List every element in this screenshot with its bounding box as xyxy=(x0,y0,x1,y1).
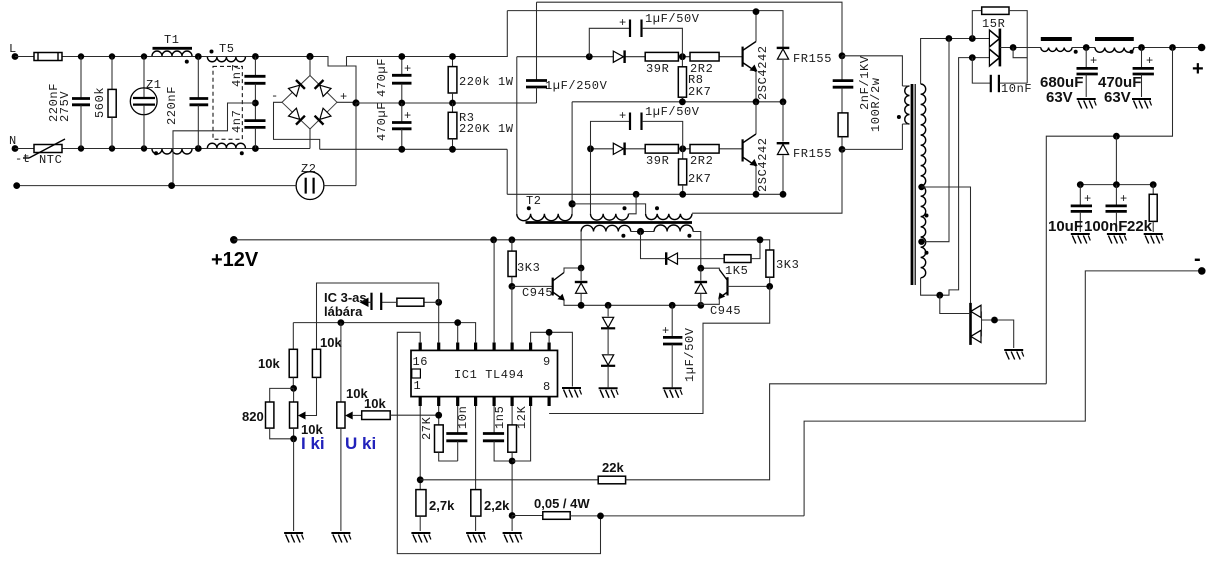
svg-text:FR155: FR155 xyxy=(793,147,832,161)
core T2 xyxy=(526,221,693,224)
svg-text:10k: 10k xyxy=(258,356,280,371)
svg-text:T5: T5 xyxy=(219,42,235,56)
node 4n7 midpoint xyxy=(252,100,259,107)
svg-text:220nF: 220nF xyxy=(165,86,179,125)
ground 2,7k xyxy=(411,533,431,543)
capacitor 220nF 275V xyxy=(80,57,82,99)
wire to pin11 xyxy=(511,286,513,343)
svg-text:275V: 275V xyxy=(58,91,72,122)
transistor Q1 2SC4242 upper xyxy=(741,47,743,67)
svg-text:10k: 10k xyxy=(320,335,342,350)
svg-text:100nF: 100nF xyxy=(1084,218,1127,235)
node T2 mid node xyxy=(569,200,576,207)
resistor 39R lower xyxy=(645,145,678,154)
wire clamp bottom to T2 w3 xyxy=(692,149,842,213)
node pin15 node xyxy=(435,299,442,306)
node collector top xyxy=(753,8,760,15)
node collector node right xyxy=(697,265,704,272)
winding T2 primary 1 xyxy=(517,214,572,221)
diode antiparallel left xyxy=(575,282,588,293)
svg-text:1K5: 1K5 xyxy=(725,264,748,278)
resistor 3K3 right xyxy=(766,250,774,277)
svg-text:-t: -t xyxy=(15,152,31,166)
wire pin14 line xyxy=(293,323,475,343)
svg-text:+: + xyxy=(1146,54,1154,68)
capacitor 470uF lower xyxy=(401,103,403,122)
wire output plus line xyxy=(1134,47,1202,49)
wire T2 mid link xyxy=(572,204,646,214)
ground shunt node xyxy=(503,533,523,543)
wire base drive return to pin8 xyxy=(549,286,770,413)
wire pin7 to node xyxy=(512,406,531,461)
wire earth line xyxy=(17,185,297,187)
svg-text:220K 1W: 220K 1W xyxy=(459,122,514,136)
wire T2 sec left end down xyxy=(580,232,582,269)
wire clamp to primary xyxy=(842,56,902,86)
svg-text:22k: 22k xyxy=(1127,218,1153,235)
node pin1 node xyxy=(417,476,424,483)
svg-text:+: + xyxy=(404,62,412,76)
capacitor feedback C xyxy=(381,301,397,303)
svg-text:2SC4242: 2SC4242 xyxy=(756,45,770,100)
wire right base to 3K3 xyxy=(728,285,770,287)
resistor 22k bleeder xyxy=(1152,185,1154,195)
wire pin16 sense loop xyxy=(397,332,600,553)
node shunt sense node xyxy=(597,513,604,520)
capacitor 1uF/250V xyxy=(536,2,538,80)
wire upper drive row xyxy=(517,56,743,58)
svg-text:T1: T1 xyxy=(164,33,180,47)
svg-text:10nF: 10nF xyxy=(1001,82,1032,96)
svg-text:1µF/50V: 1µF/50V xyxy=(645,12,700,26)
wire diode to 1K5 xyxy=(678,258,725,260)
node T2 sec center tap xyxy=(637,228,644,235)
wire T2 sec center link xyxy=(631,231,654,233)
capacitor 470uF 63V output xyxy=(1141,48,1143,69)
resistor 0,05 / 4W xyxy=(512,515,543,517)
svg-text:3K3: 3K3 xyxy=(776,258,799,272)
wire top outer line xyxy=(537,2,843,56)
node lower anode dot xyxy=(969,54,976,61)
capacitor 10uF xyxy=(1079,185,1081,206)
node plus terminal xyxy=(1198,44,1206,52)
svg-text:I ki: I ki xyxy=(301,434,325,453)
wire pin2 drop xyxy=(438,406,440,425)
svg-text:+: + xyxy=(1192,58,1204,80)
node 3K3 left bottom xyxy=(509,283,516,290)
svg-text:+: + xyxy=(619,109,627,123)
wire T2 sec right end down xyxy=(693,232,701,269)
node junction dots on N line xyxy=(78,145,84,151)
resistor 22k xyxy=(598,476,625,484)
svg-text:2K7: 2K7 xyxy=(688,172,711,186)
node +12V terminal xyxy=(230,236,238,244)
wire bridge minus output xyxy=(274,102,320,149)
diode bridge D lower-left xyxy=(288,108,305,125)
wire 22k to minus sense xyxy=(626,384,1047,480)
svg-text:-: - xyxy=(1194,248,1201,270)
wire D- anode bar xyxy=(981,311,983,336)
node T3 tap dots xyxy=(918,239,924,245)
diode upper row xyxy=(613,50,624,63)
diode bridge D upper-right xyxy=(315,80,332,97)
node L2 cap junction xyxy=(1138,44,1145,51)
node arrow to IC pin3 xyxy=(360,298,369,307)
resistor 100R/2w clamp xyxy=(838,113,848,137)
resistor 2R2 lower xyxy=(690,145,719,154)
resistor R8 2K7 upper xyxy=(681,57,683,67)
svg-text:820: 820 xyxy=(242,409,264,424)
svg-text:470µF: 470µF xyxy=(375,58,389,97)
svg-text:0,05 / 4W: 0,05 / 4W xyxy=(534,496,590,511)
svg-text:1: 1 xyxy=(414,379,422,393)
node lower row dots xyxy=(587,145,594,152)
potentiometer 10k I ki xyxy=(293,388,295,402)
svg-text:U ki: U ki xyxy=(345,434,376,453)
node +12V rail dots xyxy=(490,236,497,243)
diode bias D2 xyxy=(607,328,609,354)
svg-text:16: 16 xyxy=(413,355,429,369)
svg-text:560k: 560k xyxy=(93,87,107,118)
diode FR155 lower xyxy=(782,102,784,142)
diode rectifier D+ dual xyxy=(989,30,999,47)
svg-text:12K: 12K xyxy=(515,405,529,429)
svg-text:+: + xyxy=(1090,54,1098,68)
node 12K bottom xyxy=(509,458,516,465)
potentiometer 10k U ki xyxy=(340,323,342,402)
capacitor 1uF/50V upper xyxy=(589,28,629,56)
resistor 12K xyxy=(511,406,513,425)
transformer T3 core xyxy=(911,84,914,285)
wire T2 center tap to clamp diode xyxy=(641,232,666,259)
svg-text:2SC4242: 2SC4242 xyxy=(756,137,770,192)
svg-text:220k 1W: 220k 1W xyxy=(459,75,514,89)
wire I ki to ground xyxy=(293,439,295,531)
ground I ki xyxy=(284,533,304,543)
node junction dots on L line xyxy=(78,53,84,59)
wire lower collector/emitter column xyxy=(755,102,757,134)
wire T2 w2 right post to rail xyxy=(629,194,637,214)
svg-text:-: - xyxy=(271,89,279,103)
wire L line xyxy=(15,57,356,104)
transistor Q4 C945 right xyxy=(726,277,728,295)
resistor 560k xyxy=(111,57,113,90)
wire L line right part xyxy=(346,57,348,67)
capacitor 4n7 lower xyxy=(254,103,256,120)
wire right emitter xyxy=(701,298,720,304)
svg-text:C945: C945 xyxy=(710,304,741,318)
resistor feedback R xyxy=(424,301,439,303)
wire pin12 to +12V xyxy=(493,240,495,343)
wire sense line xyxy=(1046,48,1172,384)
resistor R3 220K 1W xyxy=(452,103,454,112)
capacitor 220nF (second) xyxy=(197,57,199,99)
node collector node left xyxy=(578,265,585,272)
wire pin14 line left drop xyxy=(292,323,294,350)
wire pin15 riser xyxy=(438,302,440,343)
op-amp U1 IC1 TL494 body xyxy=(411,350,558,396)
wire pins 9 10 to ground xyxy=(531,332,573,386)
resistor 2K7 lower xyxy=(682,149,684,159)
svg-text:+: + xyxy=(404,109,412,123)
wire mid rail riser to T2 xyxy=(571,102,573,204)
wire lower drive row xyxy=(591,148,743,150)
diode bridge D upper-left xyxy=(288,80,305,97)
svg-text:+: + xyxy=(1120,192,1128,206)
node shunt node xyxy=(509,512,516,519)
svg-text:C945: C945 xyxy=(522,286,553,300)
svg-text:39R: 39R xyxy=(646,154,669,168)
ground bias diodes xyxy=(599,388,619,398)
wire center tap riser xyxy=(922,39,950,242)
svg-text:2,7k: 2,7k xyxy=(429,498,455,513)
svg-text:63V: 63V xyxy=(1104,89,1131,106)
svg-text:10n: 10n xyxy=(456,406,470,429)
capacitor 1n5 xyxy=(493,406,495,433)
diode bridge D lower-right xyxy=(315,108,332,125)
wire 10k horiz to pin2 xyxy=(390,414,439,416)
transistor Q2 2SC4242 lower xyxy=(741,139,743,161)
diode lower row xyxy=(613,143,624,156)
wire 22k feedback line xyxy=(420,479,598,481)
svg-text:1µF/250V: 1µF/250V xyxy=(545,79,608,93)
svg-text:IC 3-as: IC 3-as xyxy=(324,290,367,305)
node L1 L2 junction xyxy=(1083,44,1090,51)
resistor 10k left xyxy=(289,349,297,377)
node secondary bottom dot xyxy=(936,292,943,299)
svg-text:2,2k: 2,2k xyxy=(484,498,510,513)
resistor 1K5 xyxy=(724,255,751,263)
diode FR155 upper xyxy=(777,48,790,59)
wire N line xyxy=(15,148,310,150)
svg-text:4n7: 4n7 xyxy=(230,110,244,133)
diode antiparallel right xyxy=(695,282,708,293)
svg-text:+: + xyxy=(1084,192,1092,206)
ground pins 9 10 xyxy=(562,388,582,398)
wire shunt output line xyxy=(570,515,804,517)
node sense takeoff xyxy=(1169,44,1176,51)
svg-text:FR155: FR155 xyxy=(793,52,832,66)
svg-text:1n5: 1n5 xyxy=(493,406,507,429)
inductor L1 output xyxy=(1041,37,1072,41)
node earth junction xyxy=(168,182,175,189)
svg-text:10k: 10k xyxy=(364,396,386,411)
svg-text:+12V: +12V xyxy=(211,249,259,271)
transistor Q3 C945 left xyxy=(552,278,554,296)
resistor 820 loop xyxy=(270,388,294,402)
wire feedback loop upper xyxy=(317,283,439,349)
wire 4n7 mid to earth line xyxy=(173,103,255,186)
svg-text:2K7: 2K7 xyxy=(688,85,711,99)
winding T3 secondary xyxy=(921,84,926,278)
capacitor 470uF upper xyxy=(401,57,403,76)
node anode line dots xyxy=(946,35,953,42)
wire collector column upper xyxy=(755,12,757,42)
wire bridge bottom to N xyxy=(309,129,311,149)
svg-text:+: + xyxy=(619,16,627,30)
node minus terminal xyxy=(1198,267,1206,275)
resistor 10k horizontal xyxy=(362,411,391,420)
resistor 2,7k xyxy=(416,490,426,516)
wire sense to filter group xyxy=(1115,136,1117,184)
svg-text:NTC: NTC xyxy=(39,153,62,167)
svg-text:T2: T2 xyxy=(526,194,542,208)
wire mid rail xyxy=(356,102,537,104)
svg-text:27K: 27K xyxy=(420,416,434,440)
winding T3 primary xyxy=(905,86,910,124)
resistor 15R snubber xyxy=(972,11,981,39)
wire rectifier output xyxy=(1000,47,1041,49)
wire minus return path xyxy=(804,271,1202,516)
resistor 2R2 upper xyxy=(690,52,719,61)
resistor 39R upper xyxy=(645,52,678,61)
node 3K3 right bottom xyxy=(766,283,773,290)
capacitor 10n xyxy=(457,406,459,433)
svg-text:39R: 39R xyxy=(646,62,669,76)
ground 2,2k xyxy=(466,533,486,543)
svg-text:4n7: 4n7 xyxy=(230,64,244,87)
wire top inner line xyxy=(507,11,783,47)
svg-text:Z1: Z1 xyxy=(146,78,162,92)
svg-text:+: + xyxy=(662,324,670,338)
wire T3 secondary bottom xyxy=(921,58,990,296)
resistor 220k 1W xyxy=(452,57,454,67)
fuse F1 xyxy=(34,53,62,61)
wire bottom return rail xyxy=(507,193,783,195)
node upper row dots xyxy=(586,53,593,60)
pin stubs bottom xyxy=(420,397,549,406)
wire right collector xyxy=(701,268,720,269)
resistor 3K3 left xyxy=(511,240,513,251)
svg-text:470µF: 470µF xyxy=(375,102,389,141)
wire drive riser to T2 w1 xyxy=(516,57,518,214)
node sense mid node xyxy=(1113,133,1120,140)
svg-text:lábára: lábára xyxy=(324,304,363,319)
svg-text:9: 9 xyxy=(543,355,551,369)
wire base wire left C945 xyxy=(512,285,553,287)
winding T2 primary 3 xyxy=(646,214,692,220)
svg-text:2R2: 2R2 xyxy=(690,154,713,168)
svg-text:1µF/50V: 1µF/50V xyxy=(645,105,700,119)
node earth terminal xyxy=(13,182,20,189)
wire filter group rail xyxy=(1080,184,1153,186)
resistor 2,2k xyxy=(471,490,481,516)
potentiometer U ki wiper arrow xyxy=(345,412,353,420)
capacitor 1uF/50V aux xyxy=(671,305,673,337)
svg-text:3K3: 3K3 xyxy=(517,261,540,275)
pin stubs top xyxy=(420,343,549,351)
wire left emitter xyxy=(564,300,581,305)
thermistor NTC xyxy=(34,145,62,153)
wire T2 w1 right post xyxy=(571,204,573,214)
svg-text:15R: 15R xyxy=(982,17,1005,31)
capacitor 2nF/1KV clamp xyxy=(839,52,846,59)
resistor 27K xyxy=(435,425,444,452)
resistor 10k right xyxy=(312,349,320,377)
capacitor 100nF xyxy=(1115,185,1117,206)
wire bridge plus output xyxy=(337,101,356,103)
svg-text:8: 8 xyxy=(543,380,551,394)
wire lower row to T2 w2 xyxy=(590,149,592,214)
inductor L2 output xyxy=(1095,37,1134,41)
winding T2 primary 2 xyxy=(591,214,629,220)
svg-text:10uF: 10uF xyxy=(1048,218,1083,235)
capacitor 10nF snubber xyxy=(972,58,990,84)
capacitor 4n7 upper xyxy=(254,57,256,77)
svg-text:63V: 63V xyxy=(1046,89,1073,106)
wire pin4 drop xyxy=(475,406,477,490)
diode bias D1 xyxy=(607,305,609,316)
svg-text:22k: 22k xyxy=(602,460,624,475)
bridge rectifier xyxy=(282,76,337,130)
wire D- to ground xyxy=(982,320,1014,348)
wire plus riser xyxy=(355,103,357,186)
wire left collector xyxy=(564,268,581,273)
svg-text:IC1 TL494: IC1 TL494 xyxy=(454,368,524,382)
wire 10k left to pot xyxy=(292,377,294,388)
diode clamp at center tap xyxy=(666,252,677,265)
svg-text:100R/2w: 100R/2w xyxy=(869,77,883,132)
winding T2 secondary left xyxy=(581,225,631,231)
capacitor 1uF/50V lower xyxy=(591,121,630,148)
wire tap to lower rectifier xyxy=(922,187,971,303)
wire pin1 drop xyxy=(419,406,421,490)
surge arrester Z1 xyxy=(143,57,145,98)
capacitor 680uF 63V xyxy=(1085,48,1087,69)
ground U ki xyxy=(331,533,351,543)
wire secondary bottom to D- xyxy=(940,295,971,313)
wire T3 secondary top xyxy=(921,39,990,85)
wire emitter rail xyxy=(581,304,701,306)
diode rectifier D- dual xyxy=(971,305,981,317)
wire mid rail xyxy=(572,101,783,103)
winding T2 secondary right xyxy=(654,225,693,231)
wire minus rail xyxy=(320,148,508,150)
wire +12V rail xyxy=(234,240,770,250)
svg-text:1µF/50V: 1µF/50V xyxy=(683,327,697,382)
node plus bus junction xyxy=(352,99,359,106)
